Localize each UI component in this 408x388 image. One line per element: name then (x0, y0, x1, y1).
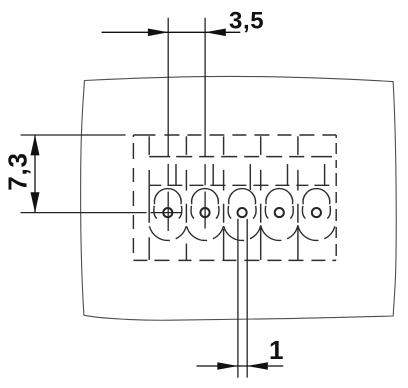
position 4 clamp top arc (266, 189, 293, 205)
hole row horizontal centerline (7,3 extension) (21, 212, 183, 214)
position 5 left clamp hook (302, 206, 305, 219)
svg-text:1: 1 (269, 335, 284, 365)
partition line middle x=260.7 (260, 170, 262, 223)
position 3 wire lobe arc (224, 226, 261, 240)
position 5 clamp top arc (303, 189, 330, 205)
position 3 right clamp hook (253, 206, 256, 219)
position 2 clamp top arc (192, 189, 219, 205)
hole 1 vertical centerline (3,5 extension) (167, 18, 169, 231)
position 1 left clamp hook (154, 206, 157, 219)
hole 3 right extension line (dim 1) (246, 219, 248, 378)
arrow up of dim 7,3 (31, 135, 40, 155)
hole H3 drill circle (238, 208, 247, 217)
hole H2 drill circle (200, 208, 209, 217)
hole 2 vertical centerline (3,5 extension) (204, 18, 206, 229)
position 5 screw-slot line (324, 164, 326, 185)
partition line upper x=297.9 (297, 136, 299, 155)
position 1 screw-slot line (175, 164, 177, 185)
arrow left of dim 3,5 (148, 29, 169, 37)
partition line upper x=223.6 (223, 136, 225, 155)
partition line lower x=149.2 (148, 237, 150, 260)
position 5 wire lobe arc (298, 226, 335, 240)
hole H1 drill circle (163, 208, 172, 217)
svg-text:3,5: 3,5 (229, 7, 264, 34)
hole 3 left extension line (dim 1) (237, 219, 239, 378)
position 2 left clamp hook (191, 206, 194, 219)
component outline right edge (335, 135, 337, 260)
dimension line 7,3 (34, 135, 36, 213)
arrow right of dim 1 (247, 362, 268, 370)
outline top extension line (7,3) (21, 134, 126, 136)
position 2 wire lobe arc (187, 226, 224, 240)
position 1 right clamp hook (179, 206, 182, 219)
position 5 right clamp hook (327, 206, 330, 219)
hole H5 drill circle (312, 208, 321, 217)
arrow left of dim 1 (217, 362, 238, 370)
partition line upper x=149.2 (148, 136, 150, 155)
partition line lower x=223.6 (223, 229, 225, 260)
position 3 screw-slot line (249, 164, 251, 190)
svg-text:7,3: 7,3 (3, 152, 33, 191)
partition line middle x=149.2 (148, 170, 150, 223)
position 3 left clamp hook (228, 206, 231, 219)
position 2 screw-slot line (212, 164, 214, 185)
partition line lower x=186.4 (185, 244, 187, 260)
dimension line 1 (197, 365, 284, 367)
partition line lower x=297.9 (297, 225, 299, 260)
hole H4 drill circle (275, 208, 284, 217)
partition line lower x=260.7 (260, 225, 262, 260)
arrow right of dim 3,5 (205, 29, 226, 37)
component outline top edge (133, 134, 336, 136)
component outline left edge (132, 135, 134, 260)
position 1 clamp top arc (154, 189, 181, 205)
partition line upper x=260.7 (260, 136, 262, 155)
position 2 right clamp hook (216, 206, 219, 219)
arrow down of dim 7,3 (31, 192, 40, 212)
position 4 screw-slot line (287, 164, 289, 185)
partition line upper x=186.4 (185, 136, 187, 155)
partition line middle x=297.9 (297, 170, 299, 223)
position 1 wire lobe arc (149, 226, 186, 240)
position 3 clamp top arc (229, 189, 256, 205)
pcb plate (wavy solid outline) (81, 76, 397, 320)
partition line middle x=186.4 (185, 170, 187, 223)
position 4 right clamp hook (290, 206, 293, 219)
position 4 wire lobe arc (261, 226, 298, 240)
partition line middle x=223.6 (223, 170, 225, 223)
position 4 left clamp hook (265, 206, 268, 219)
dimension line 3,5 (102, 31, 241, 33)
component outline bottom edge (133, 259, 336, 261)
inner horizontal dashed line y=185.3 (149, 184, 336, 186)
inner horizontal dashed line y=156.6 (149, 156, 332, 158)
